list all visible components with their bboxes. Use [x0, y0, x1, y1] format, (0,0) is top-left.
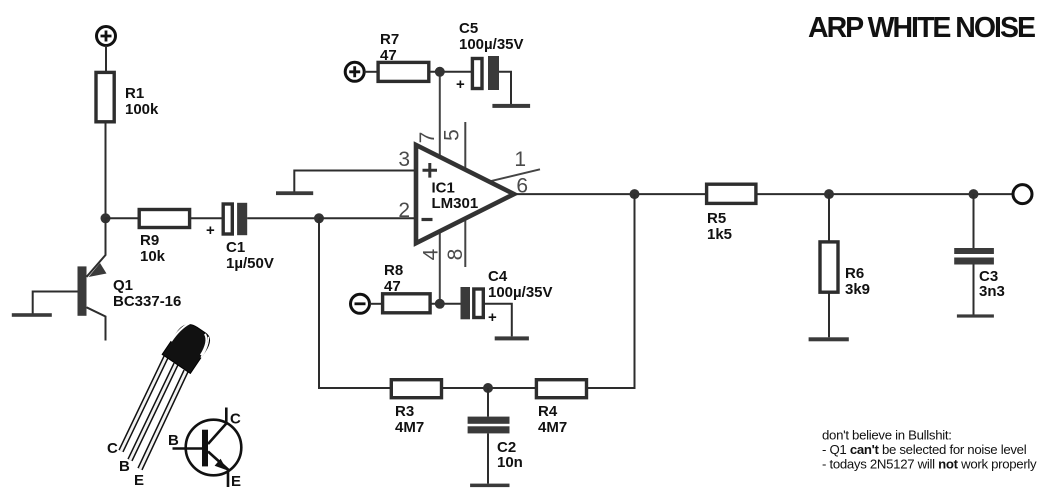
title ARP WHITE NOISE	[808, 12, 1035, 44]
resistor R8	[383, 262, 431, 313]
svg-text:R3: R3	[395, 403, 414, 420]
resistor R1	[96, 72, 159, 121]
wire C5 to ground	[499, 72, 511, 104]
wire R8 to C4	[430, 303, 460, 305]
svg-text:+: +	[456, 76, 465, 93]
ground (Q1 base)	[12, 313, 52, 317]
svg-text:R1: R1	[125, 85, 144, 102]
node junction output/C3	[969, 189, 979, 199]
svg-text:R4: R4	[538, 403, 558, 420]
wire +V to R1	[105, 46, 107, 73]
ground (C3)	[957, 314, 994, 317]
wire R7 to node3	[429, 71, 473, 73]
pin number 7	[416, 132, 439, 144]
ground (pin 3)	[276, 191, 313, 195]
svg-text:E: E	[231, 473, 241, 490]
svg-text:4: 4	[420, 248, 443, 260]
wire C4 to ground	[483, 304, 512, 337]
transistor Q1 package TO-92	[107, 320, 214, 489]
wire +V2 to R7	[364, 71, 378, 73]
feedback wire left	[319, 218, 391, 388]
pin 4 wire	[439, 231, 441, 303]
svg-text:R9: R9	[140, 232, 159, 249]
svg-text:+: +	[488, 309, 497, 326]
svg-text:1µ/50V: 1µ/50V	[226, 255, 274, 272]
ground (C4)	[495, 336, 529, 340]
wire R3 to node	[442, 387, 537, 389]
svg-text:LM301: LM301	[432, 195, 479, 212]
pin number 6	[516, 175, 528, 198]
svg-text:ARP WHITE NOISE: ARP WHITE NOISE	[808, 12, 1035, 44]
capacitor C3	[954, 248, 1005, 300]
svg-text:B: B	[168, 432, 179, 449]
capacitor C4 (polarized)	[461, 268, 553, 326]
wire R9 to C1	[190, 217, 224, 219]
wire R6 to ground	[828, 292, 830, 337]
transistor Q1 symbol	[78, 263, 182, 341]
transistor pinout symbol	[168, 408, 241, 491]
svg-text:- Q1 can't be selected for noi: - Q1 can't be selected for noise level	[822, 442, 1027, 457]
svg-text:1: 1	[514, 148, 526, 171]
wire C3 to ground	[973, 265, 975, 315]
svg-text:R8: R8	[384, 262, 403, 279]
wire op-amp output	[514, 193, 1013, 195]
wire node to C3	[973, 194, 975, 248]
pin 8 wire	[464, 219, 466, 267]
svg-text:C: C	[107, 440, 118, 457]
pin 1 wire	[491, 169, 541, 181]
ground (R6)	[809, 337, 849, 341]
wire C1 to node2	[247, 217, 319, 219]
resistor R6	[820, 242, 870, 298]
svg-text:3: 3	[398, 148, 410, 171]
output terminal	[1013, 185, 1032, 204]
capacitor C1 (polarized)	[206, 203, 274, 272]
svg-text:2: 2	[398, 199, 410, 222]
svg-text:B: B	[119, 458, 130, 475]
node junction R7/pin7/C5	[435, 67, 445, 77]
svg-text:IC1: IC1	[432, 180, 455, 197]
svg-text:R7: R7	[380, 31, 399, 48]
note text	[822, 428, 1037, 472]
ground (C2)	[470, 484, 509, 488]
wire R1 to node	[105, 122, 107, 219]
svg-text:47: 47	[380, 47, 397, 64]
node junction R5/R6	[824, 189, 834, 199]
svg-text:4M7: 4M7	[538, 419, 567, 436]
wire node to R9	[106, 217, 140, 219]
svg-text:C1: C1	[226, 239, 245, 256]
wire C2 to ground	[487, 433, 489, 483]
svg-text:100µ/35V: 100µ/35V	[488, 284, 553, 301]
pin number 3	[398, 148, 410, 171]
wire node to Q1 emitter	[87, 218, 106, 277]
svg-text:10k: 10k	[140, 248, 166, 265]
-V terminal (op-amp supply)	[351, 294, 370, 313]
wire -V to R8	[370, 303, 383, 305]
pin number 5	[441, 129, 464, 141]
feedback wire right	[587, 194, 635, 388]
resistor R7	[378, 31, 429, 81]
svg-text:C5: C5	[459, 20, 478, 37]
svg-text:100k: 100k	[125, 101, 159, 118]
svg-text:Q1: Q1	[113, 277, 133, 294]
svg-text:C: C	[230, 411, 241, 428]
pin 7 wire	[439, 72, 441, 157]
resistor R5	[707, 184, 756, 243]
capacitor C2	[468, 417, 523, 471]
node junction R3/R4/C2	[483, 383, 493, 393]
svg-text:C4: C4	[488, 268, 508, 285]
svg-text:3k9: 3k9	[845, 281, 870, 298]
svg-text:10n: 10n	[497, 454, 523, 471]
svg-text:5: 5	[441, 129, 464, 141]
pin 5 wire	[464, 122, 466, 170]
svg-text:4M7: 4M7	[395, 419, 424, 436]
svg-text:7: 7	[416, 132, 439, 144]
svg-text:R6: R6	[845, 265, 864, 282]
node junction output/feedback	[630, 189, 640, 199]
resistor R9	[139, 210, 189, 266]
resistor R3	[391, 380, 441, 436]
pin number 4	[420, 248, 443, 260]
node junction R1/R9/Q1	[101, 213, 111, 223]
+V terminal 2 (op-amp supply)	[345, 62, 364, 81]
+V terminal 1 (top left)	[97, 27, 116, 46]
svg-text:1k5: 1k5	[707, 226, 732, 243]
svg-text:don't believe in Bullshit:: don't believe in Bullshit:	[822, 428, 952, 443]
wire Q1 base to ground	[33, 292, 78, 315]
svg-text:R5: R5	[707, 210, 726, 227]
ground (C5)	[492, 104, 530, 108]
wire node to C2	[487, 388, 489, 417]
op-amp IC1 LM301	[416, 145, 514, 243]
pin number 8	[444, 249, 467, 261]
node junction C1/pin2/feedback	[314, 213, 324, 223]
svg-text:- todays 2N5127 will not work: - todays 2N5127 will not work properly	[822, 457, 1037, 472]
wire R5 node to R6	[828, 194, 830, 242]
capacitor C5 (polarized)	[456, 20, 524, 93]
svg-text:BC337-16: BC337-16	[113, 293, 181, 310]
svg-text:8: 8	[444, 249, 467, 261]
svg-text:47: 47	[384, 278, 401, 295]
pin number 2	[398, 199, 410, 222]
svg-text:3n3: 3n3	[979, 283, 1005, 300]
svg-text:E: E	[134, 472, 144, 489]
wire node2 to op-amp pin 2	[319, 217, 416, 219]
wire op-amp pin 3 to ground	[294, 171, 416, 192]
svg-text:100µ/35V: 100µ/35V	[459, 36, 524, 53]
resistor R4	[536, 380, 586, 436]
pin number 1	[514, 148, 526, 171]
svg-text:+: +	[206, 222, 215, 239]
node junction R8/pin4/C4	[435, 299, 445, 309]
